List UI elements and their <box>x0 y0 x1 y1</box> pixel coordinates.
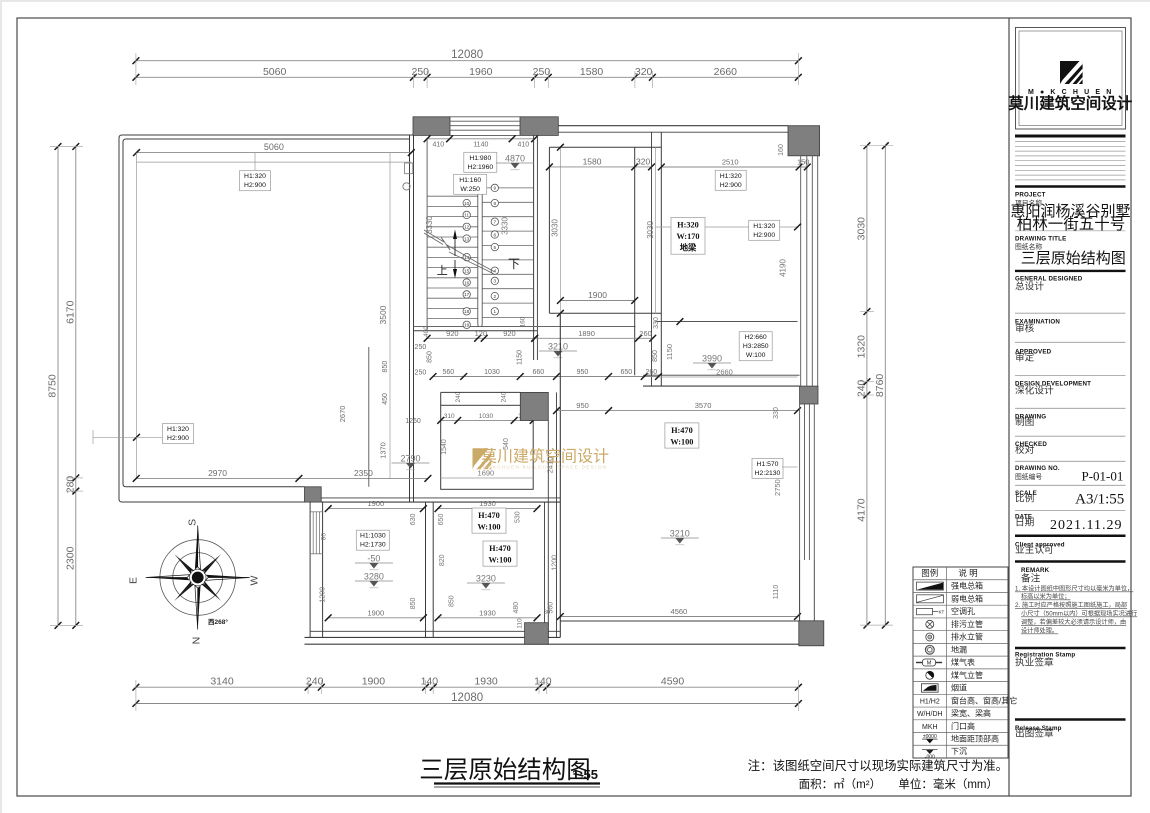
legend row flue <box>922 684 939 692</box>
level 3210 corridor <box>539 342 577 358</box>
extension lines right <box>860 146 893 625</box>
svg-text:调整，若偏差较大必须请示设计师，由: 调整，若偏差较大必须请示设计师，由 <box>1021 618 1126 626</box>
svg-text:地面距顶部高: 地面距顶部高 <box>951 734 999 744</box>
svg-text:1:55: 1:55 <box>572 767 598 782</box>
svg-text:1930: 1930 <box>479 499 496 508</box>
stair treads right flight <box>482 188 533 318</box>
svg-text:18: 18 <box>464 309 470 314</box>
column bottom right <box>799 621 824 646</box>
svg-text:-50: -50 <box>367 554 380 564</box>
svg-text:梁宽、梁高: 梁宽、梁高 <box>951 708 991 718</box>
stair right wall <box>534 135 538 360</box>
stair up arrow <box>453 230 457 257</box>
svg-text:16: 16 <box>464 280 470 285</box>
level 3230 room B <box>467 574 505 590</box>
svg-text:H1:320: H1:320 <box>167 426 189 433</box>
svg-text:320: 320 <box>636 156 650 166</box>
svg-text:W:170: W:170 <box>676 232 699 241</box>
svg-text:注：该图纸空间尺寸以现场实际建筑尺寸为准。: 注：该图纸空间尺寸以现场实际建筑尺寸为准。 <box>748 758 1008 773</box>
svg-text:H2:660: H2:660 <box>745 334 767 341</box>
svg-text:排水立管: 排水立管 <box>951 632 983 642</box>
legend table <box>913 567 1008 758</box>
svg-text:比例: 比例 <box>1015 492 1034 505</box>
svg-text:2: 2 <box>494 294 497 299</box>
beam label H2:660 H3:2850 W:100 <box>739 332 772 361</box>
stair label H1:160 W:250 <box>454 174 487 194</box>
bottom rooms top wall <box>321 498 560 502</box>
svg-text:窗台高、窗高/其它: 窗台高、窗高/其它 <box>951 695 1017 705</box>
terrace interior dim line lower <box>137 161 412 163</box>
column bottom middle <box>525 623 549 645</box>
small room top dim <box>437 413 536 424</box>
svg-text:150: 150 <box>797 158 810 167</box>
svg-text:DRAWING TITLE: DRAWING TITLE <box>1015 236 1066 243</box>
bottom wall rooms <box>305 631 561 637</box>
svg-text:3: 3 <box>494 279 497 284</box>
room A top dim 1900 <box>325 499 427 512</box>
title block separator <box>1008 18 1010 796</box>
svg-text:W: W <box>248 575 260 585</box>
svg-text:1890: 1890 <box>578 329 595 338</box>
svg-text:19: 19 <box>464 323 470 328</box>
svg-text:1200: 1200 <box>319 587 326 603</box>
svg-text:820: 820 <box>439 554 446 566</box>
svg-text:400: 400 <box>423 326 430 337</box>
svg-text:4170: 4170 <box>855 498 867 522</box>
field checked <box>1015 441 1047 456</box>
stair top dim 410-1140-410 <box>424 135 538 148</box>
svg-text:弱电总箱: 弱电总箱 <box>951 593 983 603</box>
level 2790 <box>392 454 430 470</box>
dimension top total 12080 <box>133 49 802 64</box>
svg-text:S: S <box>187 519 199 526</box>
legend row sewage pipe <box>926 620 934 628</box>
svg-text:1: 1 <box>494 309 497 314</box>
window label H1:320 H2:900 right top <box>715 170 746 190</box>
svg-text:1150: 1150 <box>665 344 674 360</box>
svg-text:6: 6 <box>494 232 497 237</box>
svg-text:250: 250 <box>415 344 427 351</box>
top exterior wall right section <box>558 126 788 133</box>
svg-text:3140: 3140 <box>210 676 234 688</box>
svg-text:1030: 1030 <box>484 369 500 376</box>
svg-text:W:100: W:100 <box>746 352 766 359</box>
svg-text:3210: 3210 <box>548 342 568 352</box>
svg-text:13: 13 <box>464 236 470 241</box>
dimension right outer 8760 <box>874 142 889 628</box>
svg-text:说 明: 说 明 <box>958 568 977 578</box>
level 3210 bottom right <box>661 529 699 545</box>
svg-text:PROJECT: PROJECT <box>1015 192 1046 199</box>
svg-text:H1:1030: H1:1030 <box>360 533 386 540</box>
svg-text:N: N <box>191 637 203 645</box>
svg-text:H2:1960: H2:1960 <box>467 164 493 171</box>
terrace drain circle <box>403 183 410 190</box>
stair treads left flight <box>427 196 478 326</box>
svg-text:3030: 3030 <box>646 221 655 239</box>
dimension bottom total 12080 <box>133 692 802 707</box>
dimension right inner <box>855 142 870 628</box>
svg-text:5060: 5060 <box>263 66 287 78</box>
svg-text:H:470: H:470 <box>489 544 511 553</box>
legend row sunken <box>922 750 938 761</box>
svg-text:MKH: MKH <box>922 724 938 731</box>
svg-text:3210: 3210 <box>670 529 690 539</box>
svg-text:强电总箱: 强电总箱 <box>951 581 983 591</box>
svg-text:12080: 12080 <box>451 692 483 704</box>
bottom right room top dim 950-3570-330 <box>553 401 801 414</box>
svg-text:图纸编号: 图纸编号 <box>1015 472 1042 481</box>
svg-text:柏林一街五十号: 柏林一街五十号 <box>1017 215 1126 233</box>
project underline <box>1015 230 1126 232</box>
svg-text:920: 920 <box>503 329 516 338</box>
terrace interior dim 3500 vertical <box>389 153 391 479</box>
window label H1:320 H2:900 right mid <box>749 220 780 240</box>
terrace outer parapet wall <box>119 135 413 502</box>
svg-text:8750: 8750 <box>47 374 59 398</box>
svg-text:12: 12 <box>464 225 470 230</box>
right room interior dim 3030 <box>655 147 657 313</box>
svg-text:深化设计: 深化设计 <box>1015 384 1054 397</box>
corridor dim row 1890-260 <box>531 329 656 342</box>
svg-text:560: 560 <box>443 369 455 376</box>
svg-text:30: 30 <box>544 610 551 616</box>
section line drawing <box>1015 407 1126 409</box>
beam label H:470 W:100 room B second <box>483 541 517 566</box>
field project <box>1015 192 1046 208</box>
svg-text:3500: 3500 <box>378 305 388 324</box>
section line design development <box>1015 375 1126 377</box>
legend row level mark <box>922 734 938 744</box>
svg-text:E: E <box>128 577 140 584</box>
svg-text:4190: 4190 <box>779 259 788 277</box>
column mid <box>520 392 548 420</box>
extension lines left <box>50 147 83 626</box>
field examination <box>1015 319 1060 335</box>
svg-text:地梁: 地梁 <box>680 243 697 253</box>
title block thick line 5 <box>1015 560 1126 563</box>
svg-text:250: 250 <box>411 66 429 78</box>
svg-text:H:470: H:470 <box>671 426 693 435</box>
svg-text:120: 120 <box>475 329 488 338</box>
svg-text:下: 下 <box>508 257 520 271</box>
svg-text:140: 140 <box>534 676 552 688</box>
svg-text:12080: 12080 <box>451 49 483 61</box>
corridor dim texts <box>338 316 659 459</box>
level 4870 stair <box>496 154 534 170</box>
svg-text:莫川建筑空间设计: 莫川建筑空间设计 <box>1008 94 1133 113</box>
svg-text:H1:320: H1:320 <box>720 173 742 180</box>
svg-text:1900: 1900 <box>588 290 607 300</box>
legend row AC hole <box>917 608 945 614</box>
svg-text:260: 260 <box>639 329 652 338</box>
middle room interior dim 3030 <box>557 144 564 317</box>
svg-text:执业签章: 执业签章 <box>1015 655 1054 668</box>
extension lines bottom <box>136 680 799 711</box>
svg-text:H2:900: H2:900 <box>244 182 266 189</box>
middle room walls <box>549 147 661 375</box>
stair label H1:980 H2:1960 <box>464 152 497 172</box>
svg-text:250: 250 <box>533 66 551 78</box>
title block note lines <box>1015 142 1126 180</box>
title block thick line 3 <box>1015 270 1126 272</box>
svg-text:140: 140 <box>421 676 439 688</box>
svg-text:3330: 3330 <box>501 217 510 235</box>
svg-text:门口高: 门口高 <box>951 721 975 731</box>
field date <box>1015 514 1034 529</box>
legend row drain pipe <box>926 633 934 641</box>
svg-text:1370: 1370 <box>379 442 388 459</box>
svg-text:110: 110 <box>517 618 524 629</box>
svg-text:320: 320 <box>635 66 653 78</box>
legend row floor drain <box>925 645 934 654</box>
svg-text:3030: 3030 <box>550 219 559 237</box>
svg-text:260: 260 <box>646 369 658 376</box>
column right wall bottom <box>800 386 818 404</box>
bottom right room right wall window <box>800 404 815 621</box>
svg-text:审定: 审定 <box>1015 351 1035 364</box>
svg-text:业主认可: 业主认可 <box>1015 543 1054 556</box>
svg-text:总设计: 总设计 <box>1015 280 1044 293</box>
svg-text:1900: 1900 <box>367 499 384 508</box>
column stair top-left <box>413 117 450 136</box>
svg-text:H2:900: H2:900 <box>753 232 775 239</box>
svg-text:H1:320: H1:320 <box>244 173 266 180</box>
window label H1:320 H2:900 terrace left <box>163 424 194 444</box>
svg-text:校对: 校对 <box>1015 443 1035 456</box>
svg-text:10: 10 <box>464 201 470 206</box>
compass rose <box>128 519 261 645</box>
svg-text:H2:900: H2:900 <box>167 435 189 442</box>
column terrace bottom <box>305 487 322 502</box>
svg-text:5060: 5060 <box>264 142 284 152</box>
svg-text:H3:2850: H3:2850 <box>743 343 769 350</box>
svg-text:图例: 图例 <box>921 568 938 578</box>
svg-text:310: 310 <box>444 413 455 420</box>
section line checked <box>1015 435 1126 437</box>
svg-text:410: 410 <box>433 141 445 148</box>
svg-text:850: 850 <box>410 597 417 609</box>
stair step numbers left flight <box>463 199 470 328</box>
svg-text:H1/H2: H1/H2 <box>920 698 940 705</box>
svg-text:H1:320: H1:320 <box>753 223 775 230</box>
svg-text:850: 850 <box>449 595 456 607</box>
svg-text:2. 施工时应严格按照施工图纸施工，局部: 2. 施工时应严格按照施工图纸施工，局部 <box>1015 601 1127 609</box>
terrace left interior dim line <box>133 153 140 479</box>
svg-text:5: 5 <box>494 245 497 250</box>
band bottom wall <box>643 375 800 386</box>
page edge shading left <box>0 0 2 813</box>
beam label H:470 W:100 bottom right <box>665 423 699 448</box>
svg-text:W/H/DH: W/H/DH <box>917 711 943 718</box>
leader 5060 to label <box>254 153 256 170</box>
window label H1:570 H2:2130 <box>752 458 783 478</box>
svg-text:W:100: W:100 <box>488 556 511 565</box>
section line drawing no <box>1015 460 1126 462</box>
svg-text:H2:1730: H2:1730 <box>360 542 386 549</box>
stair bottom wall <box>414 327 636 331</box>
svg-text:煤气立管: 煤气立管 <box>951 670 983 680</box>
wall between room A and B <box>426 502 434 637</box>
svg-text:标高以米为单位；: 标高以米为单位； <box>1021 593 1071 601</box>
svg-text:1900: 1900 <box>362 676 386 688</box>
field client approved <box>1015 542 1065 557</box>
window label H1:320 H2:900 terrace top <box>240 171 271 191</box>
svg-text:上: 上 <box>437 264 448 277</box>
svg-text:2510: 2510 <box>722 158 739 167</box>
svg-text:9: 9 <box>494 186 497 191</box>
svg-text:备注: 备注 <box>1021 572 1041 585</box>
corridor dim row under stair <box>430 369 662 380</box>
svg-text:450: 450 <box>382 393 389 405</box>
svg-text:7: 7 <box>494 220 497 225</box>
svg-text:H1:980: H1:980 <box>469 155 491 162</box>
svg-text:1580: 1580 <box>580 66 604 78</box>
stair down arrow <box>453 260 457 279</box>
note text <box>748 758 1008 791</box>
svg-text:850: 850 <box>382 361 389 373</box>
bottom exterior wall line <box>305 643 824 645</box>
title block thick line 4 <box>1015 535 1126 538</box>
stair left wall inner line <box>426 139 428 331</box>
svg-text:650: 650 <box>438 513 445 525</box>
right room lower wall line <box>655 318 797 325</box>
room B right wall <box>545 420 549 637</box>
field registration stamp <box>1015 652 1075 669</box>
logo box <box>1016 28 1126 130</box>
middle room bottom dim 1900 <box>557 290 638 304</box>
right exterior window wall <box>801 156 818 386</box>
small room bottom dim 1690 <box>441 477 534 479</box>
svg-text:2790: 2790 <box>400 454 420 464</box>
svg-text:1320: 1320 <box>855 335 867 359</box>
svg-text:480: 480 <box>513 602 520 614</box>
column top-right corner <box>788 126 820 156</box>
svg-text:160: 160 <box>520 316 527 327</box>
field drawing no <box>1015 465 1060 481</box>
level -50 room A <box>355 554 393 570</box>
extension lines top <box>136 53 799 88</box>
terrace right wall <box>410 135 414 502</box>
svg-text:面积：㎡（m²） 单位：毫米（mm）: 面积：㎡（m²） 单位：毫米（mm） <box>799 777 998 791</box>
field approved <box>1015 349 1052 364</box>
svg-text:三层原始结构图: 三层原始结构图 <box>1021 250 1126 267</box>
svg-text:850: 850 <box>652 350 659 362</box>
title block thick line 6 <box>1015 647 1126 650</box>
shaft right wall <box>652 132 662 386</box>
svg-text:240: 240 <box>855 379 867 397</box>
svg-text:H2:2130: H2:2130 <box>755 470 781 477</box>
svg-text:15: 15 <box>464 269 470 274</box>
svg-text:2750: 2750 <box>773 479 782 496</box>
svg-text:W:250: W:250 <box>460 186 480 193</box>
middle room top dim 1580-320 <box>546 156 655 170</box>
section line scale <box>1015 484 1126 486</box>
legend row weak electric box <box>917 595 944 603</box>
svg-text:下沉: 下沉 <box>951 747 967 756</box>
window label H1:1030 H2:1730 <box>356 530 389 550</box>
svg-text:8: 8 <box>494 201 497 206</box>
section line examination <box>1015 312 1126 314</box>
svg-text:A3/1:55: A3/1:55 <box>1075 492 1124 508</box>
svg-text:西268°: 西268° <box>208 618 228 626</box>
svg-text:日期: 日期 <box>1015 516 1034 528</box>
svg-text:3280: 3280 <box>364 572 384 582</box>
room A left wall with window <box>310 502 323 637</box>
dimension left inner <box>64 143 79 629</box>
leader line right room <box>655 224 801 231</box>
svg-text:330: 330 <box>773 407 780 419</box>
section line date <box>1015 510 1126 512</box>
svg-text:3030: 3030 <box>855 217 867 241</box>
svg-text:3570: 3570 <box>695 401 712 410</box>
svg-text:空调孔: 空调孔 <box>951 606 975 616</box>
svg-text:3990: 3990 <box>702 354 722 364</box>
svg-text:660: 660 <box>532 369 544 376</box>
stair railing <box>478 183 482 327</box>
svg-text:三层原始结构图: 三层原始结构图 <box>419 756 591 784</box>
beam label H:320 W:170 地梁 <box>671 217 705 254</box>
svg-text:2021.11.29: 2021.11.29 <box>1050 518 1122 533</box>
svg-text:1690: 1690 <box>478 469 495 478</box>
svg-text:2970: 2970 <box>208 468 227 478</box>
company logo icon <box>1060 61 1083 84</box>
legend row gas pipe <box>926 670 936 680</box>
svg-text:1900: 1900 <box>367 608 384 617</box>
svg-text:2660: 2660 <box>714 66 738 78</box>
dim 2660 <box>655 376 797 378</box>
svg-text:1200: 1200 <box>552 555 559 571</box>
svg-text:P-01-01: P-01-01 <box>1082 469 1124 484</box>
terrace door opening <box>405 163 413 174</box>
room B top dim 1930 <box>435 499 541 512</box>
svg-text:530: 530 <box>514 511 521 523</box>
svg-text:1960: 1960 <box>469 66 493 78</box>
svg-text:W:100: W:100 <box>477 523 500 532</box>
svg-text:410: 410 <box>518 141 530 148</box>
room B bottom dim 1930 <box>435 608 541 621</box>
bottom right room bottom dim 4560 <box>557 607 801 620</box>
terrace interior dim 5060 <box>133 142 415 156</box>
svg-text:1930: 1930 <box>474 676 498 688</box>
svg-text:8760: 8760 <box>874 374 886 398</box>
terrace inner parapet wall <box>123 139 410 487</box>
svg-text:2670: 2670 <box>338 406 347 423</box>
svg-text:1140: 1140 <box>473 141 488 148</box>
field scale <box>1015 490 1037 505</box>
svg-text:莫川建筑空间设计: 莫川建筑空间设计 <box>481 448 609 466</box>
svg-text:950: 950 <box>577 369 589 376</box>
stair step numbers right flight <box>491 184 498 315</box>
dimension bottom segments <box>133 676 802 691</box>
svg-text:H2:900: H2:900 <box>720 182 742 189</box>
svg-text:4870: 4870 <box>505 154 525 164</box>
svg-text:设计师处理。: 设计师处理。 <box>1021 627 1058 635</box>
svg-text:1150: 1150 <box>517 350 524 365</box>
column stair top-right <box>520 117 558 136</box>
svg-text:地漏: 地漏 <box>951 644 967 654</box>
svg-text:1930: 1930 <box>479 608 496 617</box>
svg-text:630: 630 <box>410 513 417 525</box>
field drawing title <box>1015 236 1066 252</box>
svg-text:煤气表: 煤气表 <box>951 657 975 667</box>
legend row gas meter <box>916 659 942 667</box>
svg-text:H1:160: H1:160 <box>459 177 481 184</box>
dimension left outer 8750 <box>47 143 62 629</box>
svg-text:小尺寸（50mm以内）可根据现场实况进行: 小尺寸（50mm以内）可根据现场实况进行 <box>1021 610 1137 618</box>
svg-text:审核: 审核 <box>1015 322 1035 335</box>
svg-text:制图: 制图 <box>1015 415 1034 428</box>
